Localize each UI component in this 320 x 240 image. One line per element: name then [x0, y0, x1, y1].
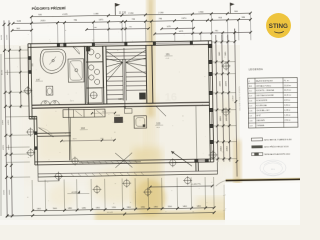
svg-text:CHODBA + WC: CHODBA + WC: [256, 109, 270, 112]
svg-text:21,04 m²: 21,04 m²: [284, 84, 292, 87]
terrace slope arrow: [171, 151, 192, 167]
svg-text:940: 940: [38, 14, 42, 16]
window jambs top wall: [57, 43, 60, 47]
svg-text:1720: 1720: [112, 207, 116, 209]
warm tint over plan: [20, 40, 225, 185]
svg-text:740: 740: [94, 27, 97, 29]
svg-text:2470: 2470: [225, 81, 227, 87]
bottom strip stain: [95, 211, 230, 222]
svg-text:4150: 4150: [7, 69, 9, 75]
svg-text:1300: 1300: [127, 207, 131, 209]
counter slashes: [75, 111, 82, 117]
svg-text:SPÍŽ: SPÍŽ: [256, 114, 261, 117]
svg-text:1350: 1350: [154, 206, 158, 208]
wall interior pantry right: [102, 46, 105, 104]
wall left exterior upper: [28, 44, 29, 119]
svg-text:790: 790: [158, 18, 162, 20]
svg-text:3250: 3250: [6, 34, 8, 40]
door swing hallway: [39, 127, 54, 137]
wall bottom exterior: [35, 159, 214, 162]
dimension chain C right: [155, 32, 251, 34]
svg-text:790: 790: [129, 26, 132, 28]
left scan edge: [0, 54, 2, 216]
dimension chain C mid2: [162, 27, 194, 30]
svg-text:1 800: 1 800: [198, 11, 204, 13]
left connectors: [4, 49, 28, 51]
svg-text:380: 380: [241, 17, 245, 19]
left dimension chains: [4, 20, 7, 216]
svg-text:4 470: 4 470: [62, 14, 68, 16]
svg-text:3650: 3650: [9, 189, 11, 195]
svg-text:1350: 1350: [96, 207, 100, 209]
svg-text:2900: 2900: [8, 119, 10, 125]
window jambs bottom wall: [194, 159, 198, 162]
svg-text:102: 102: [249, 91, 252, 93]
svg-text:109: 109: [249, 125, 252, 127]
svg-text:16: 16: [165, 92, 177, 104]
svg-text:107: 107: [249, 115, 252, 117]
staircase treads right flight: [126, 71, 146, 73]
terrace edge: [38, 171, 217, 174]
svg-text:1400: 1400: [197, 205, 201, 207]
svg-text:6,30 m²: 6,30 m²: [284, 104, 291, 107]
svg-text:740: 740: [215, 30, 219, 32]
svg-text:1475: 1475: [70, 100, 74, 102]
fold band center: [147, 0, 156, 117]
svg-text:1,35 m²: 1,35 m²: [284, 114, 291, 117]
STING logo overlay: [266, 13, 291, 38]
svg-text:102: 102: [81, 127, 86, 130]
svg-text:104: 104: [249, 100, 252, 102]
right connectors: [212, 41, 235, 43]
svg-text:106: 106: [249, 110, 252, 112]
svg-text:900: 900: [17, 28, 21, 30]
level mark PTL: [150, 186, 212, 187]
kitchen unit column: [86, 46, 103, 62]
svg-text:2350: 2350: [226, 145, 228, 151]
corner bathtub: [40, 49, 66, 74]
svg-text:č.: č.: [249, 81, 251, 83]
svg-text:101: 101: [249, 86, 252, 88]
svg-text:TERASA: TERASA: [257, 124, 265, 127]
svg-text:ZÁDVEŘÍ: ZÁDVEŘÍ: [256, 119, 265, 122]
washbasins: [41, 101, 50, 105]
svg-text:1800: 1800: [8, 144, 10, 150]
terrace door swing: [115, 153, 132, 168]
svg-text:1310: 1310: [141, 206, 145, 208]
svg-text:105: 105: [249, 105, 252, 107]
wall top exterior: [28, 41, 212, 44]
svg-text:1140: 1140: [16, 21, 21, 23]
svg-text:14,31 m²: 14,31 m²: [284, 94, 292, 97]
bottom extension lines: [31, 180, 34, 211]
svg-text:PŮDORYS PŘÍZEMÍ: PŮDORYS PŘÍZEMÍ: [32, 5, 67, 11]
windows right wall: [209, 46, 211, 62]
svg-text:SCHODIŠTĚ: SCHODIŠTĚ: [256, 99, 268, 102]
svg-text:2350: 2350: [220, 146, 222, 152]
window jambs left wall: [28, 56, 31, 60]
svg-text:16,25 m²: 16,25 m²: [284, 89, 292, 92]
svg-text:103: 103: [156, 122, 161, 125]
dimension chain C left stub: [12, 29, 31, 31]
wall interior stair right: [145, 45, 148, 103]
svg-text:ZDIVO BETON. TVÁRNICE tl.400: ZDIVO BETON. TVÁRNICE tl.400: [264, 138, 292, 141]
svg-text:900: 900: [225, 51, 227, 55]
svg-text:900: 900: [32, 63, 34, 66]
svg-text:NÁZEV MÍSTNOSTI: NÁZEV MÍSTNOSTI: [256, 79, 274, 82]
staircase walking line with arrow: [124, 48, 125, 109]
svg-text:900: 900: [218, 17, 222, 19]
svg-text:1475: 1475: [179, 31, 184, 33]
scan speckle: [83, 44, 84, 46]
window jambs left lower wall: [34, 131, 37, 134]
wall step bottom right: [195, 162, 197, 171]
svg-text:1475: 1475: [167, 26, 171, 28]
staircase treads upper: [106, 48, 146, 51]
staircase well: [122, 59, 125, 100]
door arc top wall: [73, 47, 80, 55]
dimension chain C mid: [87, 29, 149, 30]
wall interior bathroom right: [83, 46, 86, 104]
svg-text:1475: 1475: [72, 138, 76, 140]
svg-text:960: 960: [234, 11, 238, 13]
kitchen counter band room 102: [63, 109, 105, 117]
svg-text:STING: STING: [269, 23, 288, 30]
svg-text:101: 101: [166, 53, 171, 56]
survey flag right: [229, 3, 231, 14]
wall left step: [29, 115, 37, 117]
wc: [46, 86, 53, 95]
svg-text:4,92 m²: 4,92 m²: [284, 99, 291, 102]
sheet edge below photo line: [223, 185, 226, 220]
svg-text:OBYTNÁ KUCHYNĚ: OBYTNÁ KUCHYNĚ: [256, 94, 274, 97]
svg-text:4,18 m²: 4,18 m²: [284, 109, 291, 112]
chimney block: [139, 93, 146, 100]
bottom-center wash: [132, 148, 162, 210]
svg-text:950: 950: [100, 138, 103, 140]
svg-text:1500: 1500: [53, 208, 57, 210]
svg-text:3650: 3650: [3, 189, 5, 195]
svg-text:2,90 m²: 2,90 m²: [284, 119, 291, 122]
svg-text:11 120: 11 120: [119, 12, 127, 15]
svg-text:1800: 1800: [3, 144, 5, 150]
svg-text:ZDIVO PŘÍČKY HELUZ tl.100: ZDIVO PŘÍČKY HELUZ tl.100: [264, 145, 289, 148]
svg-text:3250: 3250: [1, 34, 3, 40]
wall interior horizontal mid: [32, 102, 209, 105]
window jambs right wall: [208, 44, 212, 48]
photo edge line: [226, 179, 304, 180]
svg-text:4150: 4150: [1, 69, 3, 75]
svg-text:2470: 2470: [181, 18, 187, 20]
svg-text:LEGENDA: LEGENDA: [249, 67, 264, 71]
door room 103: [156, 106, 166, 116]
svg-text:1800: 1800: [220, 116, 222, 122]
boiler box TOPENI: [114, 117, 123, 123]
svg-text:11 120: 11 120: [107, 212, 114, 214]
svg-text:103: 103: [249, 96, 252, 98]
svg-text:1300: 1300: [37, 208, 41, 210]
svg-text:21,6: 21,6: [166, 58, 170, 60]
svg-text:PL. m²: PL. m²: [284, 79, 290, 82]
svg-text:KOUPELNA: KOUPELNA: [256, 104, 267, 107]
svg-text:16,4: 16,4: [156, 127, 160, 129]
stamp: [260, 160, 286, 176]
shower: [68, 59, 84, 82]
svg-text:KUCHYŇ + JÍDELNA: KUCHYŇ + JÍDELNA: [256, 89, 275, 92]
svg-text:1475: 1475: [98, 19, 104, 21]
below photo edge white: [225, 183, 300, 225]
survey flag mid: [114, 3, 116, 15]
dimension chain A (top overall): [31, 13, 250, 17]
extension lines top: [30, 17, 32, 44]
svg-text:-0,420 PTL: -0,420 PTL: [191, 184, 202, 186]
svg-text:2470: 2470: [219, 81, 221, 87]
svg-text:108: 108: [249, 120, 252, 122]
svg-text:780: 780: [73, 20, 77, 22]
svg-text:2050: 2050: [40, 20, 46, 22]
svg-text:740: 740: [131, 19, 135, 21]
wall right exterior: [208, 41, 210, 162]
kitchen sink unit: [134, 116, 147, 129]
svg-text:2 260: 2 260: [158, 12, 164, 14]
svg-text:2900: 2900: [2, 119, 4, 125]
staircase treads left flight: [106, 75, 122, 77]
right dimension chains: [216, 35, 218, 162]
svg-text:1800: 1800: [226, 115, 228, 121]
svg-text:TOPENÍ: TOPENÍ: [114, 114, 121, 117]
bottom dimension chains: [33, 208, 214, 211]
right fold: [234, 140, 242, 186]
hatch legend item 3: [252, 153, 263, 156]
entry partition wall: [68, 108, 71, 161]
window glazing top wall: [60, 44, 63, 46]
svg-text:11 850: 11 850: [232, 96, 234, 102]
fridge box: [124, 109, 132, 114]
svg-text:CELKOVA VYSKA PO HREBEN: CELKOVA VYSKA PO HREBEN: [238, 86, 241, 111]
dimension chain B: [13, 20, 250, 24]
svg-text:1 480: 1 480: [93, 13, 99, 15]
svg-text:900: 900: [219, 51, 221, 55]
wall left exterior lower: [33, 116, 36, 164]
staircase winders left: [106, 50, 123, 62]
svg-text:1480: 1480: [68, 208, 72, 210]
dim extension room 103: [195, 106, 198, 159]
legend table: [248, 77, 298, 128]
terrace step: [38, 177, 59, 182]
svg-text:TEPELNÁ IZOLACE EPS tl.100: TEPELNÁ IZOLACE EPS tl.100: [264, 153, 290, 156]
wall interior hall: [37, 132, 70, 135]
left lower pale: [0, 160, 24, 220]
hatch step wall: [30, 117, 33, 119]
svg-text:1430: 1430: [82, 207, 86, 209]
hatch legend item 2: [251, 145, 262, 148]
hatch legend item 1: [251, 138, 262, 141]
interior dim line 102: [61, 139, 114, 142]
svg-text:2 050: 2 050: [128, 13, 134, 15]
opening bottom wall terrace door: [79, 162, 141, 163]
svg-text:1400: 1400: [183, 206, 187, 208]
staircase winders right: [125, 50, 146, 62]
svg-text:ING: ING: [271, 169, 275, 171]
svg-text:104: 104: [118, 98, 123, 101]
svg-text:1550: 1550: [168, 206, 172, 208]
survey marks: [25, 88, 31, 94]
svg-text:OBÝVACÍ POKOJ: OBÝVACÍ POKOJ: [256, 84, 271, 87]
